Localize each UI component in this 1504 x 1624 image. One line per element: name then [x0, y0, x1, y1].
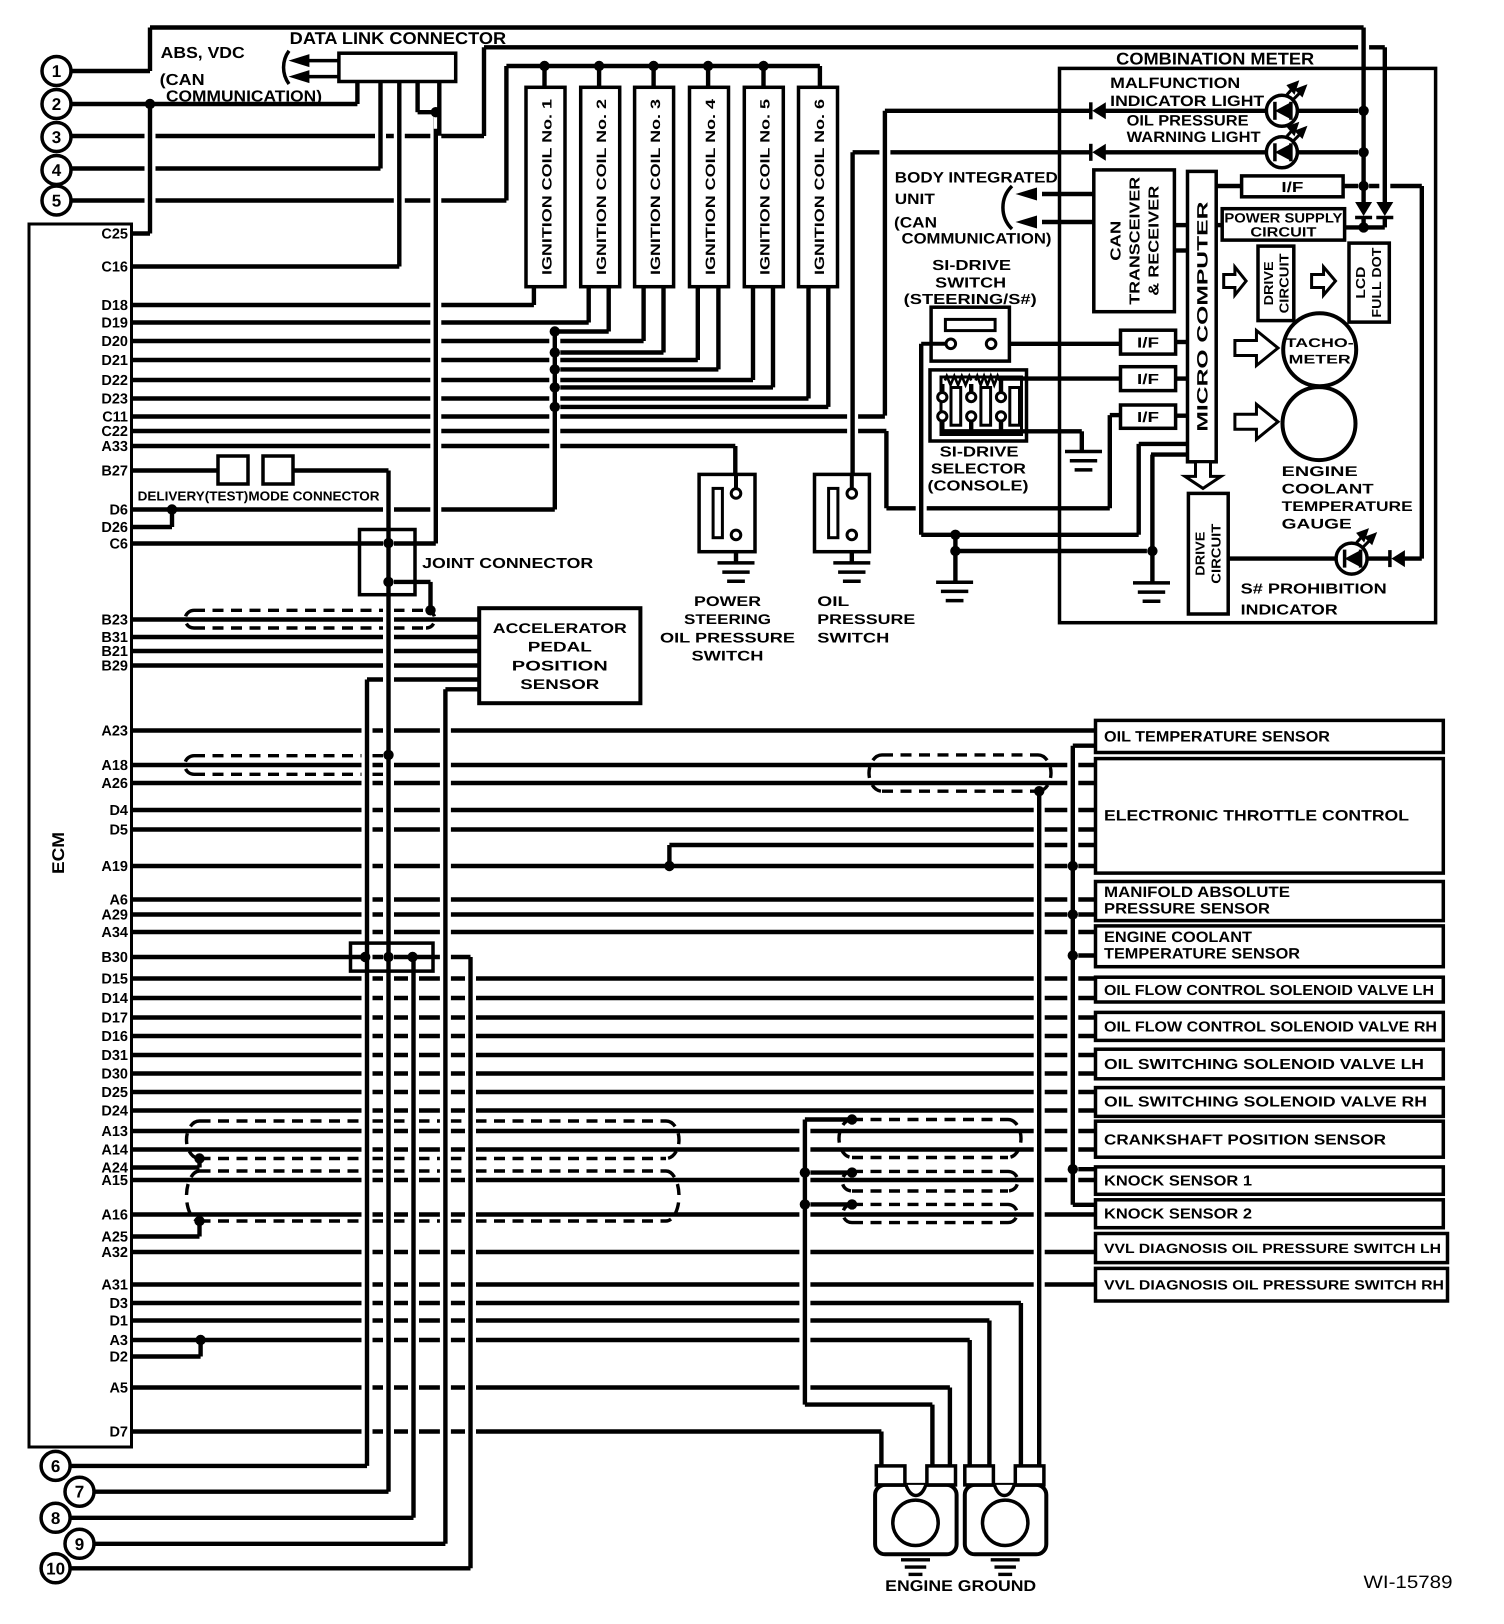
- DLC arrow: [309, 59, 339, 63]
- wire A3 to engine ground: [132, 1338, 970, 1342]
- svg-text:ELECTRONIC THROTTLE CONTROL: ELECTRONIC THROTTLE CONTROL: [1104, 808, 1409, 825]
- wire meter LED bus lower: [1361, 218, 1365, 227]
- svg-text:A13: A13: [101, 1124, 128, 1140]
- selector contact bar 1: [951, 388, 961, 426]
- VVL oil pressure switch RH box: [1096, 1268, 1448, 1301]
- wire D31 to oil switching solenoid LH: [132, 1053, 1096, 1057]
- oil temperature sensor box: [1096, 720, 1444, 752]
- shield tube knock 2 right: [852, 1203, 1008, 1206]
- shield tube knock sensors: [200, 1169, 667, 1172]
- svg-text:B23: B23: [101, 613, 128, 629]
- wire C25 riser: [145, 111, 156, 227]
- wire coil 6 pin a: [803, 294, 814, 392]
- node A18 shield to ground drop: [1034, 786, 1044, 796]
- wire D3 to engine ground: [132, 1301, 1021, 1305]
- oil switching solenoid RH box: [1096, 1088, 1444, 1117]
- arrow micro to tachometer: [1235, 331, 1278, 366]
- wire A19 branch to throttle control: [669, 843, 1095, 847]
- wire oil temp sensor bus stub: [1073, 744, 1096, 748]
- wire A24 shield riser: [197, 1159, 201, 1168]
- svg-text:A5: A5: [109, 1381, 128, 1397]
- wire coil 4 pin a: [692, 294, 703, 353]
- wire coil 3 top pin: [648, 73, 659, 80]
- svg-text:D25: D25: [101, 1085, 128, 1101]
- wire A34 to coolant temp sensor: [132, 930, 1096, 934]
- svg-text:A18: A18: [101, 758, 128, 774]
- svg-text:D23: D23: [101, 392, 128, 408]
- wire I/F1 to micro stub: [1176, 340, 1188, 344]
- svg-text:I/F: I/F: [1137, 410, 1159, 426]
- node selector bus ground: [950, 546, 960, 556]
- svg-text:COMMUNICATION): COMMUNICATION): [902, 231, 1052, 248]
- node crank shield: [847, 1114, 857, 1124]
- svg-text:C22: C22: [101, 424, 128, 440]
- svg-text:PRESSURE SENSOR: PRESSURE SENSOR: [1104, 901, 1270, 918]
- wire sensor ground bus: [1067, 753, 1078, 1198]
- svg-text:OIL FLOW CONTROL SOLENOID VALV: OIL FLOW CONTROL SOLENOID VALVE RH: [1104, 1020, 1437, 1036]
- wire C22 to SI-drive I/F: [132, 429, 887, 433]
- svg-text:TEMPERATURE SENSOR: TEMPERATURE SENSOR: [1104, 946, 1300, 963]
- diode meter bus: [1355, 202, 1372, 218]
- wire A33 drop to PS switch: [730, 453, 741, 482]
- wire top line 1 (circled 1 to combination meter): [150, 25, 1364, 29]
- engine ground clamp circle 1: [893, 1500, 938, 1545]
- node sensor bus A19: [1068, 861, 1078, 871]
- node knock shield bus 2: [800, 1199, 810, 1209]
- SI-drive switch box: [931, 307, 1009, 361]
- svg-text:C25: C25: [101, 227, 128, 243]
- svg-text:C6: C6: [109, 537, 128, 553]
- svg-text:OIL SWITCHING SOLENOID VALVE L: OIL SWITCHING SOLENOID VALVE LH: [1104, 1057, 1424, 1073]
- wire A18 shield drop to ground: [1034, 798, 1045, 1478]
- svg-text:KNOCK SENSOR 1: KNOCK SENSOR 1: [1104, 1174, 1252, 1190]
- wire D16 to oil flow solenoid RH: [132, 1034, 1096, 1038]
- manifold pressure sensor box: [1096, 882, 1444, 921]
- wire A18 to electronic throttle control: [132, 763, 1096, 767]
- svg-text:TRANSCEIVER: TRANSCEIVER: [1128, 176, 1144, 305]
- wire A19 to throttle control: [132, 864, 1096, 868]
- wire knock sensor 1 bus stub: [1073, 1167, 1096, 1171]
- wire ignition coil 3 return: [555, 350, 664, 354]
- svg-text:DRIVE: DRIVE: [1261, 261, 1276, 305]
- SI-drive switch slider: [945, 319, 995, 330]
- ignition coil box 2: [581, 87, 620, 286]
- wire from circled 4 to DLC pin: [71, 166, 381, 170]
- svg-text:A6: A6: [109, 893, 128, 909]
- svg-text:OIL PRESSURE: OIL PRESSURE: [660, 629, 795, 645]
- wire coil 5 pin a: [748, 294, 759, 373]
- wire DLC pin 2: [375, 89, 386, 162]
- wire B29 to accelerator sensor: [132, 663, 480, 667]
- wire BIU arrow lower: [1042, 220, 1094, 224]
- engine ground tab 2b: [1015, 1466, 1044, 1485]
- wire riser to circled 10: [465, 964, 476, 1561]
- wire knock shield stub upper: [805, 1170, 852, 1174]
- node meter ground: [1147, 546, 1157, 556]
- svg-text:BODY INTEGRATED: BODY INTEGRATED: [895, 170, 1058, 187]
- svg-text:D19: D19: [101, 316, 128, 332]
- ground meter node: [1133, 583, 1170, 601]
- shield tube crank right: [852, 1118, 1008, 1121]
- wire coil 3 pin b: [658, 294, 669, 346]
- svg-text:WI-15789: WI-15789: [1364, 1572, 1453, 1592]
- BIU arrow head: [1016, 216, 1038, 229]
- wire coil 4 top pin: [703, 73, 714, 80]
- ignition coil box 4: [690, 87, 729, 286]
- oil pressure switch box: [815, 474, 870, 551]
- wire SI-drive selector to I/F 2: [999, 376, 1120, 380]
- wire coil 2 top pin: [594, 73, 605, 80]
- node coil return 5: [550, 382, 560, 392]
- ground selector node: [936, 582, 973, 600]
- svg-text:WARNING LIGHT: WARNING LIGHT: [1127, 129, 1261, 146]
- wire knock shield bus top: [805, 1117, 852, 1121]
- wire coolant sensor bus stub: [1073, 953, 1096, 957]
- engine ground tab 1b: [927, 1466, 956, 1485]
- SI-drive switch wire L: [921, 342, 946, 346]
- node coil bus 3: [648, 61, 658, 71]
- node coil bus 1: [539, 61, 549, 71]
- engine ground clamp notch 1: [906, 1485, 926, 1496]
- wire D3 drop to ground: [1015, 1310, 1026, 1478]
- svg-text:MANIFOLD ABSOLUTE: MANIFOLD ABSOLUTE: [1104, 884, 1290, 901]
- wire D4 to electronic throttle control: [132, 808, 1096, 812]
- svg-text:DRIVE: DRIVE: [1193, 531, 1208, 575]
- svg-text:1: 1: [52, 62, 61, 81]
- svg-text:UNIT: UNIT: [895, 191, 935, 208]
- wire A5 drop to ground: [944, 1395, 955, 1478]
- svg-text:D2: D2: [109, 1350, 128, 1366]
- wire selector contact stub: [969, 384, 973, 393]
- wire selector lower bus to ground: [942, 429, 1082, 433]
- wire C22 drop: [881, 438, 892, 501]
- svg-text:ECM: ECM: [49, 832, 68, 874]
- wire A5 to engine ground: [132, 1385, 950, 1389]
- shield tube A18 left: [194, 754, 383, 757]
- wire D18 to ignition coil 1: [132, 303, 534, 307]
- crankshaft position sensor box: [1096, 1121, 1444, 1157]
- svg-text:& RECEIVER: & RECEIVER: [1147, 185, 1163, 296]
- svg-text:A29: A29: [101, 908, 128, 924]
- wire micro to CAN stub upper: [1174, 223, 1187, 227]
- svg-text:SELECTOR: SELECTOR: [931, 461, 1027, 477]
- drive circuit box bottom: [1188, 493, 1228, 614]
- drive circuit box top: [1258, 246, 1294, 321]
- svg-text:D24: D24: [101, 1104, 128, 1120]
- wire riser to circled 9: [440, 696, 451, 1537]
- ignition coil box 6: [799, 87, 838, 286]
- terminal circled 3: [42, 123, 71, 152]
- ground engine 1: [901, 1560, 930, 1575]
- wire B27 to delivery connector: [132, 468, 219, 472]
- wire coil 5 pin b: [768, 294, 779, 381]
- svg-text:TEMPERATURE: TEMPERATURE: [1282, 498, 1413, 514]
- combination meter box: [1060, 68, 1436, 622]
- wire A26 to electronic throttle control: [132, 781, 1096, 785]
- node A24 shield: [194, 1153, 204, 1163]
- svg-text:INDICATOR LIGHT: INDICATOR LIGHT: [1110, 93, 1264, 110]
- wire I/F to S# riser: [1345, 184, 1422, 188]
- wire coil return bus: [549, 339, 560, 503]
- svg-text:OIL PRESSURE: OIL PRESSURE: [1127, 113, 1249, 130]
- wire C22 path to I/F 3: [886, 506, 1109, 510]
- terminal circled 9: [65, 1529, 94, 1558]
- node A25 shield: [194, 1216, 204, 1226]
- delivery connector square 1: [218, 456, 248, 484]
- svg-text:METER: METER: [1289, 353, 1351, 367]
- B30 joint connector box: [351, 943, 434, 971]
- delivery connector square 2: [263, 456, 293, 484]
- wire D1 to engine ground: [132, 1318, 990, 1322]
- arrow micro to coolant gauge: [1235, 404, 1278, 439]
- wire A13 to crankshaft sensor: [132, 1129, 1096, 1133]
- wire D26 jog to D6: [132, 525, 173, 529]
- terminal circled 4: [42, 156, 71, 185]
- svg-text:C16: C16: [101, 260, 128, 276]
- svg-text:CIRCUIT: CIRCUIT: [1250, 225, 1317, 240]
- svg-text:IGNITION COIL No. 5: IGNITION COIL No. 5: [758, 98, 773, 275]
- wire circled 9 to accelerator sensor: [94, 1542, 445, 1546]
- node coil return 2: [550, 326, 560, 336]
- data link connector box: [339, 53, 456, 81]
- wire accelerator stub upper: [367, 677, 479, 681]
- svg-text:SWITCH: SWITCH: [692, 648, 764, 664]
- svg-text:I/F: I/F: [1137, 372, 1159, 388]
- wire shield drain B23: [425, 589, 436, 603]
- svg-text:IGNITION COIL No. 1: IGNITION COIL No. 1: [539, 98, 554, 275]
- svg-text:A33: A33: [101, 439, 128, 455]
- node joint connector lower: [383, 577, 393, 587]
- node sensor bus knock 1: [1068, 1164, 1078, 1174]
- node joint connector C6: [383, 538, 393, 548]
- svg-text:D30: D30: [101, 1067, 128, 1083]
- BIU bracket arc: [1003, 186, 1012, 229]
- engine ground clamp 1: [875, 1485, 957, 1554]
- svg-text:ENGINE COOLANT: ENGINE COOLANT: [1104, 929, 1252, 946]
- svg-text:POSITION: POSITION: [512, 657, 608, 673]
- wire coil 5 top pin: [758, 73, 769, 80]
- node sensor bus coolant sensor: [1068, 950, 1078, 960]
- terminal circled 2: [42, 90, 71, 119]
- ground PS switch: [718, 563, 755, 581]
- selector terminal lower 3: [996, 412, 1005, 421]
- wire selector ground drop: [1076, 438, 1087, 444]
- selector terminal lower 1: [938, 412, 947, 421]
- svg-text:MICRO COMPUTER: MICRO COMPUTER: [1194, 201, 1211, 431]
- svg-text:IGNITION COIL No. 3: IGNITION COIL No. 3: [648, 98, 663, 275]
- shield tube B23: [194, 609, 426, 612]
- wire from circled 3: [71, 134, 484, 138]
- terminal circled 1: [42, 57, 71, 86]
- wire A24 shield drain: [132, 1165, 200, 1169]
- arrow drive to LCD: [1312, 267, 1336, 295]
- svg-text:STEERING: STEERING: [684, 611, 771, 627]
- svg-text:D4: D4: [109, 803, 128, 819]
- svg-text:CIRCUIT: CIRCUIT: [1277, 253, 1292, 313]
- svg-text:SI-DRIVE: SI-DRIVE: [940, 445, 1019, 461]
- node meter bus I/F: [1358, 181, 1368, 191]
- wire coil 2 pin b: [603, 294, 614, 325]
- wire coil 1 pin a: [528, 294, 539, 298]
- SI-drive switch terminal R: [986, 339, 996, 349]
- wire selector node link: [950, 542, 961, 544]
- wire D5 to electronic throttle control: [132, 827, 1096, 831]
- svg-text:D3: D3: [109, 1296, 128, 1312]
- node circled2/C25 junction: [145, 99, 155, 109]
- svg-text:IGNITION COIL No. 2: IGNITION COIL No. 2: [594, 99, 609, 275]
- svg-text:D21: D21: [101, 353, 128, 369]
- wire circled 6 to B30 joint: [70, 1464, 367, 1468]
- wire C25 jog: [132, 231, 151, 235]
- node DLC pin3 junction: [431, 107, 441, 117]
- svg-text:D15: D15: [101, 972, 128, 988]
- selector contact bar 2: [981, 388, 991, 426]
- svg-text:CAN: CAN: [1109, 221, 1125, 261]
- node A3/D2 junction: [195, 1335, 205, 1345]
- diode meter line 2: [1376, 202, 1393, 218]
- wire D1 drop to ground: [984, 1328, 995, 1478]
- node B30 joint 3: [407, 952, 417, 962]
- selector terminal upper 1: [938, 393, 947, 402]
- PS switch terminal 1: [731, 489, 741, 499]
- wire selector contact stub: [969, 421, 973, 431]
- svg-text:A26: A26: [101, 776, 128, 792]
- svg-text:CRANKSHAFT POSITION SENSOR: CRANKSHAFT POSITION SENSOR: [1104, 1133, 1387, 1149]
- wire A3 drop to ground: [964, 1347, 975, 1478]
- svg-text:9: 9: [75, 1535, 84, 1554]
- wire D25 to oil switching solenoid RH: [132, 1090, 1096, 1094]
- svg-text:DELIVERY(TEST)MODE CONNECTOR: DELIVERY(TEST)MODE CONNECTOR: [138, 489, 381, 504]
- svg-text:A32: A32: [101, 1245, 128, 1261]
- svg-text:SENSOR: SENSOR: [520, 676, 599, 692]
- wire CAN riser: [879, 118, 890, 409]
- ignition coil box 1: [526, 87, 565, 286]
- svg-text:A14: A14: [101, 1143, 128, 1159]
- wire selector contact stub: [999, 421, 1003, 431]
- diode oil pressure warning: [1091, 144, 1106, 161]
- wire meter node ground drop: [1147, 462, 1158, 576]
- LED S# prohibition indicator: [1336, 531, 1375, 575]
- svg-text:I/F: I/F: [1137, 336, 1159, 352]
- diode malfunction indicator: [1091, 102, 1106, 119]
- node B23 shield drain: [425, 605, 435, 615]
- node coil return 3: [550, 347, 560, 357]
- ground engine 2: [991, 1560, 1020, 1575]
- svg-text:D7: D7: [109, 1425, 128, 1441]
- wire from circled 2 to data link connector: [71, 102, 357, 106]
- svg-text:COMMUNICATION): COMMUNICATION): [166, 89, 322, 106]
- wire circled 10 to B30: [70, 1566, 471, 1570]
- wire A25 shield riser: [194, 1228, 205, 1230]
- diode S# indicator: [1390, 550, 1405, 567]
- wire circled 5 riser to coil bus: [501, 73, 512, 194]
- wire SI-drive switch drop: [916, 351, 927, 528]
- wire selector contact stub: [999, 379, 1003, 393]
- wire DLC pin 3 to C16: [394, 89, 405, 260]
- node knock 1 shield: [847, 1167, 857, 1177]
- wire coil 6 pin b: [823, 294, 834, 400]
- svg-text:A16: A16: [101, 1208, 128, 1224]
- shield tube knock 1 right: [852, 1170, 1008, 1173]
- wire PS switch ground drop: [731, 546, 742, 556]
- wire DLC pin 4: [434, 89, 445, 129]
- svg-text:JOINT CONNECTOR: JOINT CONNECTOR: [422, 556, 594, 572]
- oil switch terminal wire: [850, 474, 854, 488]
- svg-text:D22: D22: [101, 373, 128, 389]
- oil flow solenoid RH box: [1096, 1012, 1444, 1040]
- wire power supply circuit line: [1345, 225, 1385, 229]
- svg-text:7: 7: [75, 1483, 84, 1502]
- svg-text:SWITCH: SWITCH: [817, 629, 889, 645]
- node meter bus MIL: [1358, 106, 1368, 116]
- node A19 branch: [664, 861, 674, 871]
- terminal circled 7: [65, 1477, 94, 1506]
- svg-text:B29: B29: [101, 659, 128, 675]
- wire I/F2 to micro stub: [1176, 376, 1188, 380]
- svg-text:3: 3: [52, 128, 61, 147]
- arrow micro computer down: [1185, 462, 1221, 489]
- wire meter diode 2 drop lower: [1383, 218, 1387, 227]
- node knock shield bus 1: [800, 1167, 810, 1177]
- wire B31 to accelerator sensor: [132, 635, 480, 639]
- wire D19 to ignition coil 2: [132, 320, 589, 324]
- svg-text:FULL DOT: FULL DOT: [1369, 248, 1384, 318]
- terminal circled 6: [41, 1451, 70, 1480]
- svg-text:D1: D1: [109, 1314, 128, 1330]
- ECM connector box: [29, 224, 132, 1447]
- wire micro to CAN stub lower: [1174, 248, 1187, 252]
- ground oil pressure switch: [833, 563, 870, 581]
- svg-text:10: 10: [46, 1559, 65, 1578]
- svg-text:DATA LINK CONNECTOR: DATA LINK CONNECTOR: [290, 29, 507, 48]
- svg-text:ENGINE GROUND: ENGINE GROUND: [885, 1578, 1036, 1595]
- wire coil 3 pin a: [638, 294, 649, 334]
- DLC arrow: [309, 75, 339, 79]
- wire ignition coil 2 return: [555, 329, 609, 333]
- I/F box 3: [1121, 367, 1176, 391]
- ignition coil box 5: [744, 87, 783, 286]
- wire delivery connector to joint riser: [293, 468, 389, 472]
- micro computer box: [1188, 171, 1217, 461]
- wire I/F stub to micro computer: [1216, 184, 1241, 188]
- wire C16 to DLC: [132, 264, 400, 268]
- wire riser to circled 6: [362, 687, 373, 1459]
- node coil return 6: [550, 402, 560, 412]
- wire D20 to ignition coil 3: [132, 339, 644, 343]
- wire DLC to C6 riser: [430, 119, 441, 536]
- terminal circled 8: [41, 1503, 70, 1532]
- electronic throttle control box: [1096, 759, 1444, 874]
- svg-text:A31: A31: [101, 1278, 128, 1294]
- svg-text:OIL: OIL: [817, 593, 850, 609]
- svg-text:5: 5: [52, 192, 61, 211]
- svg-text:8: 8: [51, 1509, 60, 1528]
- node B30 joint 2: [383, 952, 393, 962]
- svg-text:POWER SUPPLY: POWER SUPPLY: [1224, 210, 1342, 225]
- I/F box 1: [1242, 176, 1344, 197]
- wire D23 to ignition coil 6: [132, 396, 809, 400]
- wire coil 6 top pin: [814, 73, 825, 80]
- wire D15 to oil flow solenoid LH: [132, 976, 1096, 980]
- wire knock shield stub lower: [805, 1202, 852, 1206]
- ignition coil box 3: [635, 87, 674, 286]
- wire D14 to oil flow solenoid LH: [132, 996, 1096, 1000]
- svg-text:(CONSOLE): (CONSOLE): [928, 479, 1029, 495]
- svg-text:MALFUNCTION: MALFUNCTION: [1110, 75, 1240, 92]
- svg-text:ABS, VDC: ABS, VDC: [161, 45, 245, 62]
- svg-text:D16: D16: [101, 1029, 128, 1045]
- node SI-drive bus: [950, 530, 960, 540]
